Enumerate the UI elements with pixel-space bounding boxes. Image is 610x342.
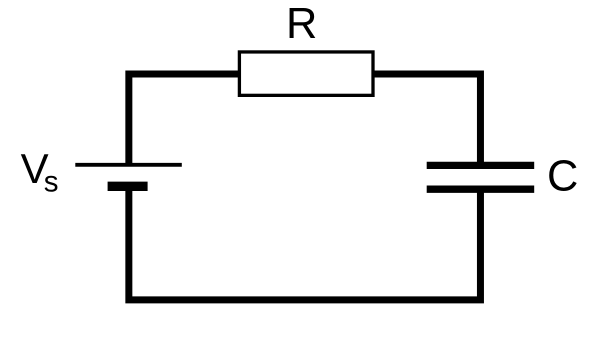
capacitor C: bottom plate <box>427 186 535 193</box>
battery Vs: positive plate (long thin) <box>75 163 182 167</box>
wire: top-left run (Vs + terminal up to top rail, across to R left pin) <box>129 74 240 165</box>
svg-text:C: C <box>547 153 578 201</box>
wire: top-right run (R right pin across top rail, down to C top plate) <box>372 74 480 165</box>
resistor R (box body) <box>239 52 373 95</box>
svg-text:R: R <box>286 0 317 48</box>
battery Vs: negative plate (short thick) <box>108 182 148 191</box>
wire: bottom run (Vs - terminal down, bottom rail, up to C bottom plate) <box>129 186 481 300</box>
svg-text:s: s <box>44 165 59 198</box>
capacitor C: top plate <box>427 162 535 169</box>
